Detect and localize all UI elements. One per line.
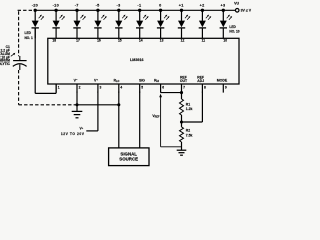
- svg-text:12V TO 20V: 12V TO 20V: [61, 132, 85, 136]
- svg-text:1.2k: 1.2k: [186, 107, 193, 111]
- svg-text:6: 6: [162, 86, 164, 90]
- svg-text:5: 5: [141, 86, 143, 90]
- svg-text:8: 8: [204, 86, 206, 90]
- svg-text:9: 9: [225, 86, 227, 90]
- svg-text:1: 1: [58, 86, 60, 90]
- svg-text:14: 14: [139, 39, 143, 43]
- svg-text:R1: R1: [186, 103, 190, 107]
- svg-text:OUT: OUT: [180, 79, 188, 83]
- svg-text:18: 18: [52, 39, 56, 43]
- svg-text:VU: VU: [234, 2, 239, 6]
- svg-text:-1: -1: [137, 4, 141, 8]
- svg-text:7: 7: [183, 86, 185, 90]
- svg-text:-5: -5: [96, 4, 100, 8]
- svg-text:-10: -10: [53, 4, 59, 8]
- svg-text:NO. 10: NO. 10: [229, 29, 239, 33]
- svg-text:ELECTROLYTIC: ELECTROLYTIC: [0, 62, 11, 66]
- svg-text:7.5k: 7.5k: [186, 133, 193, 137]
- svg-text:12: 12: [181, 39, 185, 43]
- svg-text:15: 15: [118, 39, 122, 43]
- svg-text:-20: -20: [32, 4, 38, 8]
- svg-text:3: 3: [100, 86, 102, 90]
- svg-text:3V ≤ V: 3V ≤ V: [241, 8, 252, 12]
- svg-text:LED: LED: [25, 31, 32, 35]
- svg-text:-3: -3: [117, 4, 121, 8]
- svg-text:SIG: SIG: [139, 78, 145, 82]
- svg-text:R2: R2: [186, 129, 190, 133]
- svg-text:2: 2: [79, 86, 81, 90]
- svg-text:+2: +2: [200, 4, 205, 8]
- svg-text:LM3916: LM3916: [130, 58, 144, 62]
- svg-text:4: 4: [120, 86, 122, 90]
- svg-text:MODE: MODE: [217, 78, 228, 82]
- svg-text:11: 11: [202, 39, 206, 43]
- svg-text:10: 10: [223, 39, 227, 43]
- svg-text:LED: LED: [229, 25, 236, 29]
- svg-text:+1: +1: [179, 4, 184, 8]
- svg-text:16: 16: [97, 39, 101, 43]
- svg-text:SOURCE: SOURCE: [119, 156, 138, 161]
- svg-text:-7: -7: [75, 4, 79, 8]
- svg-text:0: 0: [159, 4, 161, 8]
- svg-text:+3: +3: [221, 4, 226, 8]
- svg-text:NO. 1: NO. 1: [25, 36, 34, 40]
- svg-text:ADJ: ADJ: [197, 79, 204, 83]
- svg-text:17: 17: [76, 39, 80, 43]
- svg-text:13: 13: [160, 39, 164, 43]
